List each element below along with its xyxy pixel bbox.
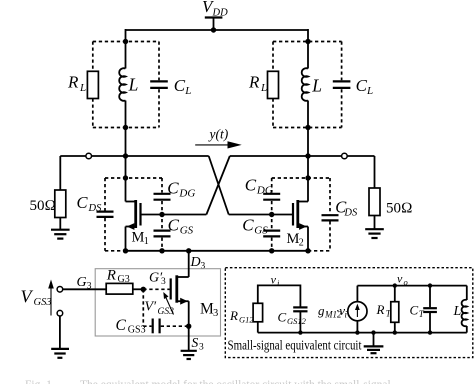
label CL right [356,76,374,97]
node left tank top [123,39,128,44]
resistor RL right [268,71,279,98]
svg-text:T: T [419,309,425,319]
label CL left [174,76,192,97]
resistor 50ohm left [55,190,66,218]
M3 grey group box [95,269,220,336]
label CDS left [77,193,103,214]
arrow y(t) [195,141,242,148]
terminal left open circle [86,153,92,159]
current source gM12 [348,286,367,333]
node D3 tap [186,248,191,253]
svg-text:M: M [132,230,145,246]
label D3 [190,255,206,272]
svg-text:C: C [410,303,419,318]
ground VGS3 [51,349,69,358]
wire VGS3 to ground [59,316,61,349]
svg-text:R: R [106,268,116,284]
node CGS right rail [269,248,274,253]
node M2 box top [305,175,310,180]
wire CGS12 bottom [299,312,301,333]
label CT [410,303,425,320]
transistor M1 [126,200,141,251]
wire dashed gate lead M3 [143,288,170,290]
label CGS3 [116,317,146,336]
wire common source rail [126,250,309,252]
svg-text:50Ω: 50Ω [386,201,413,217]
small-signal dashed box [225,268,472,358]
label VGS3 [21,287,52,309]
inductor L right [302,68,308,101]
svg-text:GS3: GS3 [158,307,175,317]
svg-text:R: R [229,308,238,323]
svg-text:GS12: GS12 [287,316,307,326]
svg-text:3: 3 [201,262,206,272]
capacitor CDS left [97,212,114,217]
resistor RT [391,286,399,333]
svg-text:L: L [311,76,322,96]
node source rail [355,330,359,334]
label G3 [77,275,92,292]
wire cross-couple top left [126,155,209,157]
label V'GS3 [145,300,175,317]
M1 dashed box [105,178,162,251]
transistor M3 [171,251,189,351]
capacitor CGS right [263,231,280,237]
wire bottom rail [258,332,467,334]
svg-text:y(t): y(t) [208,127,229,142]
label CDG left [167,179,195,200]
wire left drain branch [125,29,127,202]
wire G3 input [63,288,106,290]
svg-text:C: C [174,76,186,95]
label vo [397,272,408,287]
terminal open circle bottom [57,310,63,316]
svg-text:g: g [318,303,325,318]
node RT rail [393,330,397,334]
wire cross-couple top right [230,155,308,157]
wire cross-couple diag up [206,156,229,215]
node M2 source rail [305,248,310,253]
svg-text:G12: G12 [239,315,254,325]
svg-text:G: G [77,275,87,290]
label CGS12 [278,310,307,327]
wire left 50ohm to ground [59,218,61,230]
node left drain [123,153,128,158]
wire cross-couple bottom left [141,214,207,216]
label gM12 vi [318,303,348,320]
wire vo top rail [357,285,466,287]
svg-text:The equivalent model for the o: The equivalent model for the oscillator … [80,379,391,384]
svg-text:C: C [167,179,179,198]
svg-text:DD: DD [212,8,229,19]
label M3 [200,301,218,320]
leader arrow V'GS3 [163,292,173,315]
power VDD symbol [205,18,223,31]
label S3 [192,335,205,353]
svg-text:R: R [376,302,385,317]
svg-text:L: L [260,82,267,94]
svg-text:C: C [242,216,254,235]
label CGS right [242,216,268,237]
wire cross-couple diag down [209,156,229,215]
label RG3 [106,268,130,286]
ground small-signal [364,333,384,354]
svg-text:v: v [271,273,277,287]
node M1 box top [123,175,128,180]
node vo [393,283,397,287]
node M1 source rail [123,248,128,253]
svg-text:GS3: GS3 [128,325,146,336]
terminal G3 open circle top [57,287,63,293]
svg-text:G3: G3 [118,274,130,285]
svg-text:C: C [278,310,287,325]
label RL right [248,73,267,95]
svg-text:R: R [67,73,79,92]
svg-text:C: C [116,317,127,334]
svg-text:L: L [366,85,373,97]
label CDG right [245,176,273,197]
terminal right open circle [342,153,348,159]
resistor RL left [87,71,98,98]
svg-text:C: C [245,176,257,195]
wire left output tap [60,156,125,190]
label M2 [287,231,304,249]
wire right 50ohm to ground [374,216,376,230]
svg-text:3: 3 [199,343,204,353]
svg-text:v: v [397,272,403,286]
svg-text:GS: GS [180,224,194,236]
svg-text:DS: DS [343,207,358,218]
wire RG3 to gate node [133,288,144,290]
label CDS right [335,198,358,219]
svg-text:o: o [404,277,408,287]
node left tank bottom [123,125,128,130]
node CGS12 rail [298,330,302,334]
left tank dashed box [93,42,159,128]
resistor RG3 [106,283,133,294]
svg-text:GS3: GS3 [34,297,52,308]
resistor 50ohm right [369,188,380,216]
capacitor CDG left [154,194,171,200]
label M1 [132,230,149,248]
wire right output tap [308,156,375,188]
node G'3 [141,287,146,292]
capacitor CDS right [322,215,339,220]
svg-text:C: C [356,76,368,95]
VDD label [202,0,228,19]
svg-text:C: C [77,193,89,212]
svg-text:V: V [21,287,34,307]
svg-text:L: L [128,75,139,95]
capacitor CL left [150,81,168,88]
arrow VGS3 polarity [48,280,54,316]
svg-text:L: L [184,85,191,97]
node CGS left rail [159,248,164,253]
svg-text:M: M [200,301,214,318]
svg-text:D: D [190,255,201,270]
capacitor CGS12 [293,307,307,311]
wire cross-couple bottom right [229,214,293,216]
inductor L small-signal [462,286,467,333]
node ground rail [371,330,375,334]
svg-text:GS: GS [254,224,268,236]
label RL left [67,73,86,95]
wire RG12 bottom [257,322,259,333]
resistor RG12 [253,303,263,322]
svg-text:M: M [287,231,300,247]
wire dashed CGS3 right [161,325,189,327]
node CT rail [428,330,432,334]
right tank dashed box [273,42,342,128]
figure caption fragment [25,379,391,384]
ground right 50ohm [365,229,384,238]
capacitor CGS left [154,231,171,237]
svg-text:V′: V′ [145,300,158,315]
svg-text:DG: DG [178,187,195,199]
node M2 gate [269,212,274,217]
svg-text:3: 3 [213,308,218,319]
label G'3 [149,271,166,288]
label RT [376,302,392,319]
node VDD junction [211,27,216,32]
svg-text:Fig. 1.: Fig. 1. [25,379,55,384]
svg-text:L: L [453,304,462,319]
capacitor CL right [333,81,351,88]
node S3 [186,324,191,329]
label RG12 [229,308,254,325]
wire dashed CGS3 left [143,289,151,326]
node CT top [428,283,432,287]
svg-text:2: 2 [299,238,304,249]
capacitor CDG right [263,194,280,200]
transistor M2 [293,200,308,251]
node M1 gate [159,212,164,217]
svg-text:C: C [168,216,180,235]
ground left 50ohm [51,230,70,239]
svg-text:DS: DS [88,203,103,214]
node right drain [305,153,310,158]
capacitor CGS3 [153,319,160,334]
svg-text:S: S [192,335,199,350]
label vi [271,273,280,288]
wire right drain branch [307,29,309,202]
svg-text:R: R [248,73,260,92]
label CGS left [168,216,194,237]
svg-text:L: L [79,82,86,94]
svg-text:DG: DG [256,184,273,196]
wire vi top rail [258,285,301,306]
inductor L left [119,68,125,101]
svg-text:3: 3 [161,277,166,287]
node right tank bottom [305,125,310,130]
capacitor CT [423,286,437,333]
node right tank top [305,39,310,44]
svg-text:1: 1 [144,236,149,247]
svg-text:Small-signal equivalent circui: Small-signal equivalent circuit [228,339,362,354]
ground S3 [181,351,197,359]
wire top supply rail [126,29,309,31]
svg-text:50Ω: 50Ω [30,198,57,214]
M2 dashed box [272,178,330,251]
